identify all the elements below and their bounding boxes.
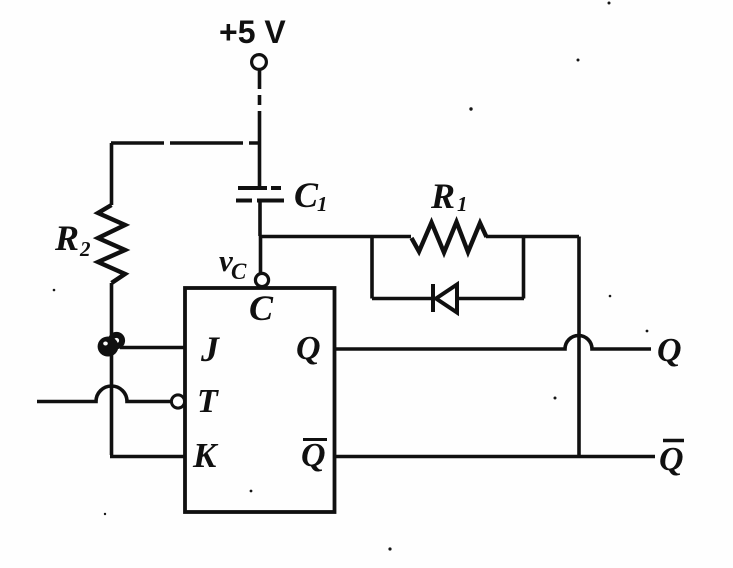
svg-text:C: C bbox=[231, 259, 247, 284]
wire R1 right to corner bbox=[486, 235, 579, 239]
svg-text:J: J bbox=[200, 329, 220, 369]
junction blob node J bbox=[98, 335, 123, 357]
inverter bubble T input bbox=[171, 395, 184, 408]
wire diode cathode segment bbox=[457, 297, 524, 301]
wire diode loop right vertical bbox=[522, 237, 526, 299]
svg-text:C: C bbox=[249, 288, 274, 328]
resistor R1 bbox=[412, 222, 487, 253]
svg-text:+5 V: +5 V bbox=[219, 14, 286, 50]
svg-text:Q: Q bbox=[659, 441, 684, 478]
svg-text:C: C bbox=[294, 175, 319, 215]
clock bubble C bbox=[255, 273, 268, 286]
capacitor C1 bottom plate bbox=[236, 199, 284, 203]
diode D1 bbox=[431, 284, 435, 312]
wire T input with hop bbox=[37, 386, 171, 402]
wire junction down vertical bbox=[110, 355, 114, 455]
wire supply vertical (dashed scan) bbox=[258, 70, 262, 187]
capacitor C1 top plate bbox=[238, 186, 281, 190]
wire Qbar output bbox=[334, 455, 655, 459]
flip-flop box U1 bbox=[185, 288, 335, 512]
svg-text:2: 2 bbox=[79, 237, 91, 261]
wire Q output with hop bbox=[334, 336, 651, 350]
wire K corner to box bbox=[110, 455, 185, 459]
wire feedback vertical to Qbar bbox=[577, 237, 581, 457]
wire diode loop left vertical bbox=[370, 237, 374, 299]
supply terminal circle bbox=[252, 55, 267, 70]
wire top-left horizontal bbox=[111, 141, 261, 145]
wire capacitor to vC node bbox=[258, 201, 262, 275]
svg-text:Q: Q bbox=[296, 330, 321, 367]
svg-text:Q: Q bbox=[657, 332, 682, 369]
svg-text:1: 1 bbox=[317, 192, 328, 216]
wire R2 to junction vertical bbox=[110, 283, 114, 336]
svg-text:R: R bbox=[430, 176, 455, 216]
svg-text:1: 1 bbox=[457, 192, 468, 216]
wire J input bbox=[120, 346, 185, 350]
svg-text:T: T bbox=[197, 383, 219, 420]
resistor R2 bbox=[98, 205, 125, 283]
wire diode anode segment bbox=[372, 297, 433, 301]
svg-text:Q: Q bbox=[301, 437, 326, 474]
wire vC node to R1 net bbox=[260, 235, 411, 239]
svg-text:K: K bbox=[192, 436, 219, 475]
scan specks bbox=[53, 2, 649, 551]
svg-text:R: R bbox=[54, 218, 79, 258]
wire R2 branch top vertical bbox=[110, 143, 114, 205]
